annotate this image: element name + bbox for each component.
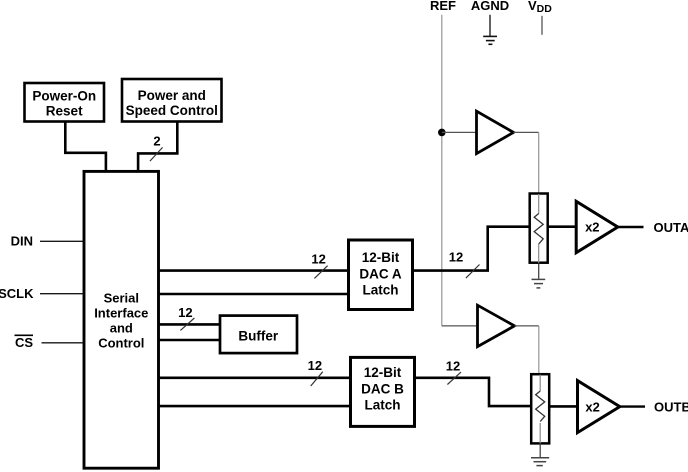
wire resistor string B to ground bbox=[539, 444, 541, 457]
resistor string block A bbox=[530, 194, 548, 264]
box Buffer bbox=[220, 316, 297, 354]
svg-text:Buffer: Buffer bbox=[238, 328, 278, 343]
bus slash 12 (Buffer input) bbox=[180, 318, 194, 330]
bus slash 12 (DAC A input) bbox=[314, 266, 327, 279]
wire buffer amp B output drop to resistor string B bbox=[538, 326, 540, 373]
wire buffer amp B output horizontal bbox=[515, 325, 539, 327]
wire OUTA lead bbox=[618, 226, 644, 228]
box 12-Bit DAC A Latch bbox=[349, 240, 413, 310]
svg-text:Control: Control bbox=[98, 335, 144, 350]
wire Power and Speed Control to Serial Interface bbox=[138, 122, 177, 170]
bus Serial to DAC B latch line 2 bbox=[159, 405, 350, 408]
svg-text:REF: REF bbox=[430, 0, 456, 13]
node junction dot on REF bbox=[438, 129, 446, 137]
svg-text:VDD: VDD bbox=[528, 0, 552, 15]
resistor string block B bbox=[531, 374, 549, 443]
wire REF to buffer amp B input bbox=[442, 325, 478, 327]
bus slash 12 (DAC B input) bbox=[311, 372, 323, 386]
bus Serial to Buffer line 1 bbox=[159, 323, 220, 326]
box Serial Interface and Control U1 bbox=[84, 171, 159, 468]
wire OUTB lead bbox=[620, 405, 645, 407]
bus Serial to DAC B latch line 1 bbox=[159, 376, 350, 379]
bus Serial to DAC A latch line 2 bbox=[159, 293, 348, 296]
op-amp x2 B bbox=[578, 381, 620, 433]
bus Serial to DAC A latch line 1 bbox=[159, 269, 348, 272]
wire REF to buffer amp A input bbox=[442, 131, 476, 133]
wire VDD stub bbox=[541, 16, 543, 35]
box Power and Speed Control bbox=[122, 79, 222, 122]
svg-text:OUTA: OUTA bbox=[654, 220, 688, 235]
svg-text:Speed Control: Speed Control bbox=[126, 103, 218, 118]
svg-text:DIN: DIN bbox=[11, 234, 33, 249]
svg-text:12: 12 bbox=[449, 250, 463, 265]
wire buffer amp A output horizontal bbox=[514, 131, 539, 133]
svg-text:Power and: Power and bbox=[138, 88, 206, 103]
wire resistor string B to x2 amp B bbox=[550, 405, 577, 408]
wire SCLK lead bbox=[40, 293, 83, 295]
ground resistor string B bbox=[531, 458, 549, 466]
op-amp buffer A bbox=[477, 111, 514, 153]
wire resistor string A to ground bbox=[538, 264, 540, 279]
pin CS label with overline bbox=[15, 335, 34, 350]
wire AGND stub bbox=[489, 15, 491, 36]
box 12-Bit DAC B Latch bbox=[351, 357, 415, 426]
svg-text:Power-On: Power-On bbox=[32, 88, 96, 103]
box Power-On Reset bbox=[25, 83, 105, 122]
svg-text:12: 12 bbox=[178, 305, 192, 320]
svg-text:CS: CS bbox=[15, 335, 33, 350]
svg-text:and: and bbox=[110, 321, 133, 336]
svg-text:Serial: Serial bbox=[104, 291, 139, 306]
bus DAC A latch to resistor string bbox=[413, 227, 530, 271]
bus Serial to Buffer line 2 bbox=[159, 339, 220, 342]
svg-text:DAC B: DAC B bbox=[361, 382, 404, 397]
svg-text:x2: x2 bbox=[585, 399, 599, 414]
bus slash 12 (DAC A output) bbox=[466, 265, 480, 279]
svg-text:Latch: Latch bbox=[364, 398, 400, 413]
svg-text:Reset: Reset bbox=[46, 103, 83, 118]
svg-text:SCLK: SCLK bbox=[0, 286, 34, 301]
svg-text:2: 2 bbox=[153, 134, 160, 149]
svg-text:12: 12 bbox=[311, 252, 325, 267]
wire DIN lead bbox=[40, 240, 83, 242]
wire resistor string A to x2 amp A bbox=[549, 225, 576, 228]
svg-text:12-Bit: 12-Bit bbox=[364, 365, 402, 380]
wire CS lead bbox=[42, 342, 84, 344]
wire REF vertical net bbox=[441, 15, 443, 326]
ground AGND symbol bbox=[483, 36, 497, 44]
bus DAC B latch to resistor string bbox=[415, 378, 532, 406]
svg-text:12: 12 bbox=[308, 358, 322, 373]
op-amp x2 A bbox=[576, 201, 618, 252]
svg-text:OUTB: OUTB bbox=[654, 400, 688, 415]
ground resistor string A bbox=[532, 279, 546, 288]
svg-text:12: 12 bbox=[446, 359, 460, 374]
svg-text:12-Bit: 12-Bit bbox=[362, 250, 400, 265]
op-amp buffer B bbox=[478, 305, 515, 346]
svg-text:DAC A: DAC A bbox=[359, 267, 401, 282]
bus slash 12 (DAC B output) bbox=[447, 372, 461, 384]
wire Power-On Reset to Serial Interface bbox=[65, 122, 106, 170]
svg-text:AGND: AGND bbox=[471, 0, 509, 13]
bus slash 2 bbox=[150, 147, 163, 161]
svg-text:x2: x2 bbox=[585, 220, 599, 235]
wire buffer amp A output drop to resistor string A bbox=[538, 132, 540, 192]
svg-text:Latch: Latch bbox=[362, 283, 398, 298]
svg-text:Interface: Interface bbox=[94, 306, 148, 321]
